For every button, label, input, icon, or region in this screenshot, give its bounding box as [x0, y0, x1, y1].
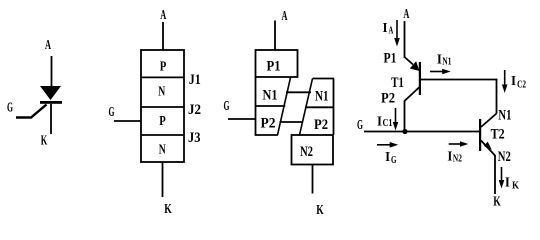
- current arrow IN2: [449, 143, 461, 145]
- transistor T1 collector wire: [405, 87, 420, 132]
- wire gate (split): [228, 118, 256, 120]
- transistor T1 emitter arrowhead: [410, 61, 420, 71]
- wire anode: [51, 56, 53, 87]
- svg-text:G: G: [109, 105, 115, 120]
- transistor T2 base bar: [479, 119, 481, 151]
- wire cathode: [50, 104, 52, 134]
- svg-text:P1: P1: [384, 51, 397, 67]
- current arrow IK: [501, 167, 503, 181]
- current arrow IC2: [504, 70, 506, 85]
- current arrow IC1: [395, 108, 397, 123]
- svg-text:K: K: [164, 202, 172, 217]
- svg-text:P2: P2: [314, 117, 328, 133]
- svg-text:I: I: [377, 115, 382, 130]
- wire gate: [16, 105, 47, 118]
- region N2 box: [292, 135, 334, 165]
- junction dot at gate node: [402, 129, 407, 134]
- svg-text:K: K: [316, 203, 324, 218]
- svg-text:N: N: [159, 143, 166, 158]
- svg-text:A: A: [45, 38, 52, 53]
- transistor T2 emitter arrowhead: [484, 142, 492, 150]
- left stack bottom edge: [255, 134, 278, 136]
- wire anode (circuit): [404, 21, 406, 58]
- svg-text:P2: P2: [261, 116, 276, 132]
- svg-text:N1: N1: [442, 57, 451, 68]
- right stack N1/P2 divider: [306, 106, 334, 108]
- svg-text:N1: N1: [498, 108, 511, 124]
- junction J1 line: [141, 76, 184, 78]
- current arrow IG: [377, 144, 390, 146]
- svg-text:N2: N2: [498, 149, 511, 165]
- junction J2 line: [141, 106, 184, 108]
- svg-text:T1: T1: [391, 75, 404, 91]
- svg-text:P: P: [160, 60, 167, 75]
- svg-text:I: I: [511, 74, 516, 89]
- svg-text:P: P: [159, 114, 166, 129]
- svg-text:C2: C2: [517, 80, 526, 91]
- wire cathode (circuit): [494, 155, 496, 194]
- left stack N1/P2 divider: [256, 105, 286, 107]
- region P1 box: [256, 50, 298, 77]
- svg-text:I: I: [447, 150, 452, 165]
- shear diagonal D1: [278, 78, 291, 136]
- svg-text:A: A: [388, 26, 394, 37]
- svg-text:N2: N2: [453, 154, 462, 165]
- svg-text:N1: N1: [263, 88, 278, 104]
- transistor T1 base wire: [421, 79, 497, 81]
- svg-text:G: G: [7, 101, 13, 116]
- transistor T2 emitter wire: [481, 141, 495, 156]
- svg-text:K: K: [512, 181, 519, 192]
- wire anode (4-layer): [162, 22, 164, 50]
- current arrow IA: [396, 20, 398, 39]
- thyristor V1 triangle: [40, 86, 61, 100]
- svg-text:G: G: [224, 99, 230, 114]
- svg-text:J2: J2: [188, 102, 201, 118]
- svg-text:N1: N1: [315, 89, 329, 105]
- svg-text:I: I: [383, 21, 388, 36]
- svg-text:P1: P1: [267, 59, 281, 75]
- svg-text:A: A: [403, 7, 410, 22]
- svg-text:I: I: [385, 150, 390, 165]
- wire cathode (4-layer): [162, 162, 164, 197]
- left stack left edge: [255, 77, 257, 135]
- svg-text:T2: T2: [491, 127, 505, 143]
- wire right vertical (base of T1 down to T2 collector): [496, 79, 498, 114]
- wire cathode (split): [312, 165, 314, 194]
- svg-text:G: G: [391, 155, 397, 166]
- svg-text:I: I: [505, 176, 510, 191]
- wire gate (4-layer): [114, 120, 141, 122]
- shear bridge upper: [286, 91, 311, 93]
- transistor T1 base bar: [419, 62, 421, 95]
- svg-text:A: A: [160, 8, 167, 23]
- svg-text:G: G: [357, 118, 363, 133]
- svg-text:K: K: [41, 134, 48, 149]
- wire anode (split): [274, 21, 276, 51]
- svg-text:J1: J1: [189, 72, 201, 88]
- svg-text:N: N: [158, 85, 165, 100]
- svg-text:K: K: [493, 195, 501, 210]
- svg-text:A: A: [282, 9, 289, 24]
- current arrow IN1: [430, 71, 443, 73]
- shear bridge lower: [280, 121, 304, 123]
- wire gate line G to T2 base: [364, 131, 479, 133]
- svg-text:P2: P2: [381, 91, 395, 107]
- thyristor V1 cathode bar: [40, 101, 62, 104]
- svg-text:N2: N2: [300, 144, 313, 160]
- right stack top edge: [313, 78, 335, 80]
- svg-text:C1: C1: [383, 118, 393, 129]
- layer stack outline: [141, 50, 184, 162]
- transistor T2 collector wire: [481, 114, 497, 128]
- svg-text:I: I: [437, 53, 442, 68]
- right stack right edge: [333, 79, 335, 136]
- shear diagonal D2: [300, 79, 313, 136]
- transistor T1 emitter wire: [405, 57, 414, 65]
- junction J3 line: [141, 134, 184, 136]
- svg-text:J3: J3: [188, 130, 201, 146]
